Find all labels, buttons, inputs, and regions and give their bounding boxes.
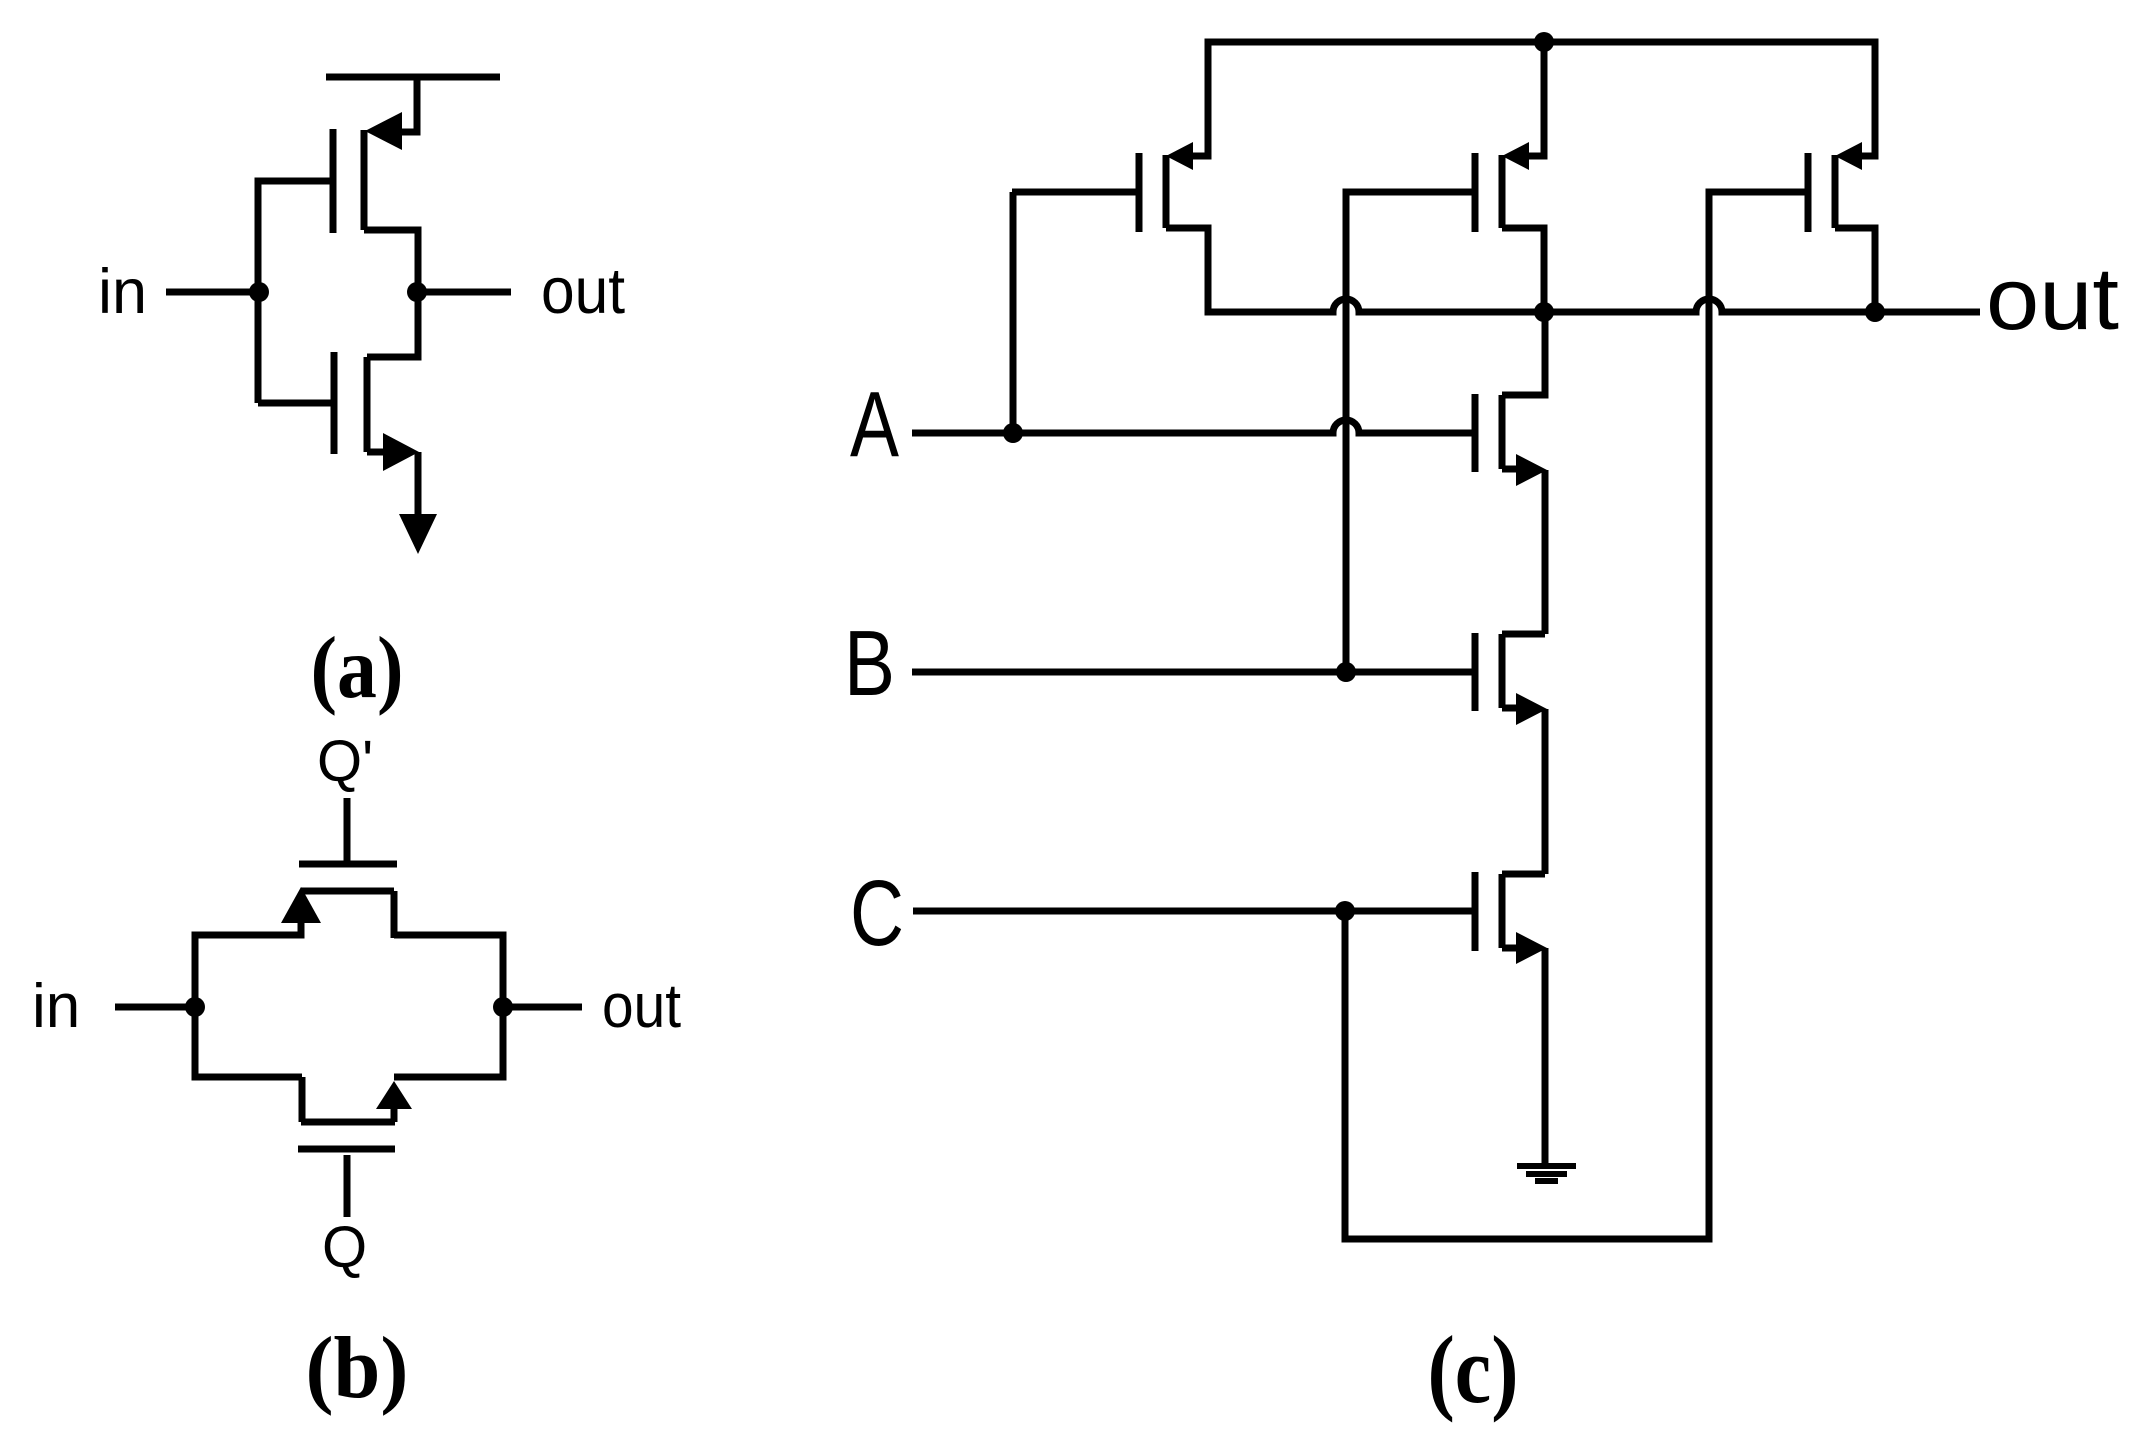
ground arrow (a) [399,514,437,554]
nmos N-B (c) gate bar [1472,633,1479,711]
svg-text:(a): (a) [311,620,404,717]
wire: N-A source to N-B drain (c) [1542,470,1549,634]
wire: input C line (c) [913,908,1472,915]
nmos pull-down (a) gate lead wire [258,400,331,407]
label: in (b) [32,972,80,1041]
wire: tg bottom-left rail (b) [195,1074,302,1081]
wire: Q gate lead (b) [344,1155,351,1217]
wire: input vertical (a) [255,178,262,404]
pmos P-mid (c) source lead to out line [1502,228,1544,312]
wire: out line with hops (c) [1205,299,1981,312]
pmos P-left (c) source arrow [1166,142,1193,170]
wire: in lead (a) [166,289,259,296]
wire: N-B source to N-C drain (c) [1542,709,1549,874]
pmos P-left (c) source lead to out line [1166,228,1208,316]
nmos pull-down (a) channel [364,357,371,452]
tg bottom left stub (b) [299,1077,306,1122]
wire: A gate vertical (c) [1010,192,1017,433]
label: Q' control (b) [317,729,373,794]
pmos P-left (c) drain lead [1191,42,1208,156]
nmos N-A (c) source stub [1502,466,1517,473]
label: out (a) [541,254,625,327]
caption (a) [311,620,404,717]
node: out dot (b) [493,997,513,1017]
wire: P-right gate long vertical to bottom wire (c) [1706,192,1713,1239]
wire: out lead (b) [503,1004,582,1011]
label: A (c) [850,372,899,476]
pmos pull-up (a) source lead to out [364,230,418,292]
nmos N-B (c) drain stub [1502,631,1545,638]
label: C (c) [850,861,904,965]
pmos pull-up (a) channel [361,130,368,230]
pmos pull-up (a) gate bar [330,129,337,233]
wire: B gate vertical (c) [1343,192,1350,672]
wire: Q' gate lead (b) [344,798,351,863]
nmos N-A (c) source arrow [1516,454,1547,486]
pmos P-right (c) source lead to out line [1835,228,1875,312]
svg-text:(b): (b) [306,1320,409,1417]
nmos N-A (c) gate bar [1472,394,1479,472]
wire: tg top-right rail (b) [394,932,503,939]
nmos pull-down (a) source arrow [383,433,419,471]
svg-text:out: out [541,254,625,327]
pmos P-right (c) gate lead [1706,189,1806,196]
nmos pull-down (a) drain lead from out [367,292,418,357]
nmos N-C (c) gate bar [1472,872,1479,951]
pmos P-left (c) gate bar [1136,153,1143,232]
svg-text:B: B [844,611,895,715]
pmos pull-up (a) drain lead [400,74,417,133]
caption (b) [306,1320,409,1417]
svg-text:Q: Q [322,1215,367,1280]
svg-text:out: out [602,972,681,1041]
nmos N-B (c) source arrow [1516,693,1547,725]
nmos N-A (c) channel [1499,395,1506,469]
nmos N-C (c) source arrow [1516,932,1547,964]
pmos P-right (c) gate bar [1805,153,1812,232]
svg-text:in: in [98,257,147,327]
wire: input A line with hop (c) [912,420,1472,433]
wire: VDD rail (c) [1205,39,1879,46]
node: out dot at P-right source (c) [1865,302,1885,322]
nmos pull-down (a) source stub [367,449,384,456]
pmos P-mid (c) drain lead [1527,42,1544,156]
label: out (b) [602,972,681,1041]
svg-text:out: out [1986,249,2119,348]
wire: bottom feedback wire (c) [1342,1236,1713,1243]
pmos P-right (c) channel [1832,155,1839,228]
pmos P-right (c) source arrow [1835,142,1862,170]
nmos N-B (c) channel [1499,634,1506,708]
svg-text:in: in [32,972,80,1041]
node: in dot (b) [185,997,205,1017]
wire: N-C source to ground (c) [1542,948,1549,1163]
node: B junction dot (c) [1336,662,1356,682]
wire: out lead (a) [417,289,511,296]
tg bottom channel (b) [301,1119,395,1126]
node: VDD rail dot (c) [1534,32,1554,52]
nmos N-C (c) channel [1499,874,1506,948]
tg top gate bar (b) [299,861,397,868]
nmos N-B (c) source stub [1502,705,1517,712]
wire: tg bottom-right rail (b) [394,1074,503,1081]
wire: tg left vertical (b) [192,932,199,1081]
node: out dot at P-mid source / N-A drain (c) [1534,302,1554,322]
node: in junction dot (a) [249,282,269,302]
node: out junction dot (a) [407,282,427,302]
label: B (c) [844,611,895,715]
tg top channel (b) [301,888,394,895]
pmos P-mid (c) channel [1499,155,1506,228]
pmos P-mid (c) source arrow [1502,142,1529,170]
svg-text:C: C [850,861,904,965]
pmos pull-up (a) source arrow [365,112,402,150]
pmos P-left (c) channel [1163,155,1170,228]
pmos P-mid (c) gate lead [1343,189,1473,196]
nmos N-C (c) drain stub [1502,871,1545,878]
wire: input B line (c) [912,669,1472,676]
svg-text:(c): (c) [1428,1316,1519,1423]
tg bottom right stub (b) [391,1107,398,1122]
wire: in lead (b) [115,1004,195,1011]
label: in (a) [98,257,147,327]
pmos P-right (c) drain lead [1858,42,1875,156]
label: out (c) [1986,249,2119,348]
label: Q control (b) [322,1215,367,1280]
wire: tg right vertical (b) [500,932,507,1081]
svg-text:A: A [850,372,899,476]
node: C junction dot (c) [1335,901,1355,921]
nmos N-C (c) source stub [1502,945,1517,952]
nmos pull-down (a) gate bar [331,352,338,454]
wire: tg top-left rail (b) [195,932,301,939]
caption (c) [1428,1316,1519,1423]
nmos N-A (c) drain lead up to out line [1502,312,1545,395]
pmos pull-up (a) gate lead wire [258,178,330,185]
pmos P-left (c) gate lead [1012,189,1136,196]
tg top left stub (b) [298,921,305,939]
tg top source arrow (b) [281,887,321,923]
wire: C branch vertical down (c) [1342,911,1349,1239]
svg-text:Q': Q' [317,729,373,794]
ground symbol (c) [1517,1166,1576,1181]
tg bottom gate bar (b) [298,1146,395,1153]
wire: nmos source to ground (a) [415,452,422,516]
node: A junction dot (c) [1003,423,1023,443]
pmos P-mid (c) gate bar [1472,153,1479,232]
VDD rail (a) [326,74,500,81]
tg bottom source arrow (b) [376,1081,412,1109]
tg top right stub (b) [391,891,398,938]
